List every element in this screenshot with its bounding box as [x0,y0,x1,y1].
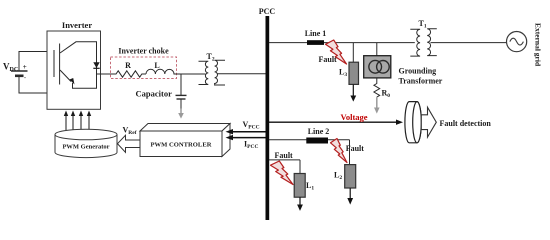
svg-text:Line 1: Line 1 [305,29,327,38]
svg-text:PWM Generator: PWM Generator [62,144,109,151]
svg-text:Inverter: Inverter [62,20,92,30]
svg-text:L: L [154,61,159,70]
svg-text:Fault: Fault [346,144,365,153]
svg-text:R: R [125,61,131,70]
svg-text:Fault: Fault [275,151,294,160]
svg-text:Voltage: Voltage [341,112,368,122]
svg-text:Capacitor: Capacitor [136,89,173,99]
svg-text:Grounding: Grounding [399,67,437,76]
svg-text:Line 2: Line 2 [308,127,330,136]
svg-text:-: - [24,76,26,82]
svg-text:+: + [23,63,27,71]
svg-text:PWM CONTROLER: PWM CONTROLER [151,142,212,149]
svg-text:PCC: PCC [259,7,276,16]
svg-text:Transformer: Transformer [399,77,443,86]
svg-text:Fault: Fault [319,55,338,64]
svg-text:External grid: External grid [534,23,543,67]
svg-text:Inverter choke: Inverter choke [118,47,169,56]
svg-text:Fault detection: Fault detection [440,119,492,128]
